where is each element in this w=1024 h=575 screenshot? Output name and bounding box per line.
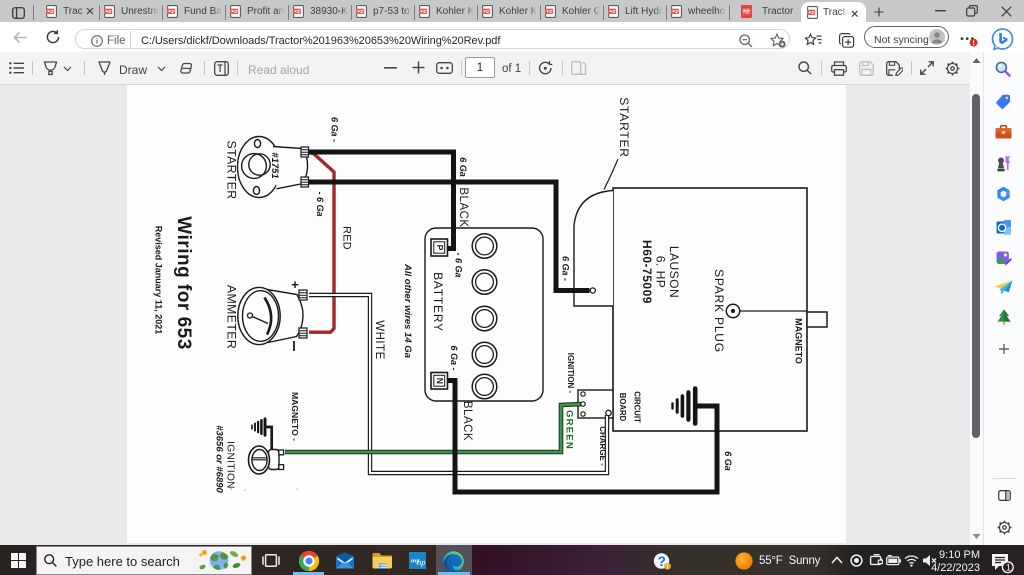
- task view: [262, 553, 280, 568]
- svg-text:All other wires 14 Ga: All other wires 14 Ga: [402, 263, 413, 358]
- collections icon: [839, 33, 855, 48]
- eraser: [179, 62, 195, 75]
- svg-text:P: P: [435, 245, 445, 251]
- refresh: [46, 30, 60, 44]
- starter leader line: [604, 159, 618, 190]
- edge highlight: [436, 545, 472, 575]
- svg-text:MAGNETO: MAGNETO: [794, 318, 804, 364]
- svg-text:BATTERY: BATTERY: [431, 272, 445, 332]
- outlook: [996, 220, 1011, 235]
- get help: [653, 553, 672, 570]
- svg-text:SPARK PLUG: SPARK PLUG: [712, 269, 726, 353]
- start: [11, 553, 26, 568]
- bing button: [991, 28, 1014, 51]
- engine block LAUSON H60-75009: [613, 188, 807, 431]
- svg-text:WHITE: WHITE: [373, 320, 385, 360]
- engine starter hump: [574, 191, 613, 307]
- mail: [335, 552, 355, 569]
- engine starter terminal dot: [590, 288, 595, 293]
- svg-text:6 Ga: 6 Ga: [458, 157, 468, 177]
- black wire: battery N to engine ground: [448, 381, 717, 493]
- battery N terminal: [431, 373, 448, 390]
- games pawn: [996, 155, 1011, 172]
- ammeter terminal minus: [299, 328, 307, 338]
- circuit board label: [618, 391, 642, 423]
- tray: battery: [886, 555, 901, 566]
- ammeter: [238, 287, 303, 344]
- tray: chevron: [831, 556, 843, 564]
- draw pen: [97, 61, 112, 76]
- svg-text:H60-75009: H60-75009: [640, 240, 654, 304]
- battery P terminal: [431, 239, 448, 256]
- fit width: [436, 62, 453, 74]
- myhp: [409, 552, 426, 569]
- save disabled: [859, 61, 874, 76]
- highlighter: [43, 61, 58, 76]
- search box: [36, 546, 252, 575]
- spark plug wire: [740, 310, 807, 312]
- zoom out icon: [739, 34, 753, 48]
- svg-text:6. HP: 6. HP: [654, 256, 668, 289]
- ammeter terminal plus: [299, 290, 307, 300]
- svg-text:6 Ga -: 6 Ga -: [449, 345, 459, 370]
- window controls: [935, 10, 946, 12]
- svg-text:#3656 or #6890: #3656 or #6890: [214, 425, 225, 493]
- svg-text:STARTER: STARTER: [225, 140, 239, 199]
- svg-text:6 Ga -: 6 Ga -: [330, 117, 340, 142]
- svg-text:#1751: #1751: [269, 152, 280, 178]
- svg-text:RED: RED: [341, 226, 353, 250]
- wire gauge labels: [315, 117, 733, 471]
- back (disabled): [13, 31, 28, 44]
- right group: [798, 61, 812, 75]
- svg-text:- 6 Ga: - 6 Ga: [315, 191, 325, 216]
- expand: [920, 61, 934, 75]
- tray: record dot: [850, 554, 863, 567]
- search: [995, 61, 1011, 77]
- notifications: [991, 553, 1015, 574]
- minus / plus: [384, 67, 397, 69]
- chrome: [299, 551, 319, 571]
- starter terminal bottom: [301, 177, 309, 187]
- ignition ground wire: [265, 427, 272, 450]
- clock: [920, 549, 980, 561]
- svg-text:BLACK: BLACK: [457, 187, 469, 227]
- active tab: [801, 2, 866, 22]
- save as: [886, 61, 903, 76]
- svg-text:IGNITION -: IGNITION -: [566, 353, 575, 394]
- ammeter needle: [248, 313, 253, 318]
- starter terminal top: [301, 147, 309, 157]
- text box icon: [214, 61, 229, 76]
- workspace button: [12, 7, 25, 19]
- circuit board terminals: [581, 392, 585, 396]
- starter solenoid #1751: [238, 137, 308, 198]
- m365 ring: [996, 186, 1011, 202]
- tree: [997, 309, 1011, 326]
- gear: [997, 520, 1012, 535]
- designer: [996, 251, 1012, 267]
- engine label: [640, 240, 681, 304]
- svg-text:Wiring for 653: Wiring for 653: [173, 216, 194, 350]
- svg-text:BLACK: BLACK: [461, 401, 473, 441]
- battery cells: [472, 234, 497, 399]
- panel icon: [998, 490, 1011, 501]
- explorer: [372, 552, 392, 569]
- svg-text:hp: hp: [417, 557, 426, 567]
- black wire: starter top to battery P: [308, 152, 454, 249]
- charge terminal: [606, 410, 611, 415]
- black wire: starter bottom to engine starter: [308, 182, 590, 291]
- svg-text:MAGNETO -: MAGNETO -: [290, 392, 300, 441]
- svg-text:CIRCUIT: CIRCUIT: [633, 391, 642, 423]
- svg-text:6 Ga: 6 Ga: [723, 451, 733, 471]
- spark plug: [726, 304, 739, 317]
- divider: [993, 478, 1016, 479]
- scan speckles: [230, 488, 232, 490]
- battery: [425, 228, 543, 401]
- svg-text:6 Ga -: 6 Ga -: [561, 256, 571, 281]
- svg-text:Revised January 11, 2021: Revised January 11, 2021: [154, 226, 164, 335]
- svg-text:- 6 Ga: - 6 Ga: [454, 252, 464, 277]
- ellipsis + badge: [959, 36, 979, 49]
- green wire: ignition to circuit board: [285, 404, 583, 452]
- pdf page: [127, 85, 846, 543]
- sun: [735, 552, 753, 570]
- page box: [465, 57, 495, 78]
- red wire: starter to ammeter: [307, 153, 334, 333]
- tray: mute: [922, 554, 937, 567]
- toolbox: [995, 125, 1012, 139]
- settings gear: [945, 61, 960, 76]
- svg-text:+: +: [291, 277, 299, 292]
- url pill: [75, 29, 790, 49]
- svg-text:GREEN: GREEN: [564, 410, 575, 450]
- print: [831, 61, 847, 76]
- plus: [998, 343, 1010, 355]
- svg-text:IGNITION: IGNITION: [225, 441, 236, 489]
- svg-text:N: N: [435, 378, 445, 384]
- toc icon: [9, 62, 24, 74]
- earth-day doodle: [196, 548, 250, 573]
- ignition switch #3656: [249, 446, 284, 474]
- svg-text:AMMETER: AMMETER: [225, 285, 239, 349]
- svg-text:1: 1: [1006, 563, 1011, 573]
- svg-text:STARTER: STARTER: [617, 97, 631, 158]
- svg-text:BOARD: BOARD: [618, 393, 627, 422]
- shopping tag: [996, 94, 1011, 109]
- magneto tab: [807, 312, 827, 327]
- svg-text:LAUSON: LAUSON: [667, 246, 681, 298]
- white wire: ammeter to charge terminal: [309, 295, 607, 473]
- new tab +: [874, 7, 884, 17]
- not syncing pill: [864, 26, 949, 48]
- ammeter scale arc: [265, 298, 272, 335]
- circuit board: [578, 390, 613, 418]
- engine ground symbol: [673, 389, 696, 424]
- rotate: [538, 61, 553, 75]
- tray: display: [869, 554, 883, 567]
- tray: wifi: [904, 554, 919, 567]
- drop plane: [994, 280, 1013, 295]
- ignition ground symbol: [252, 419, 265, 435]
- page layout (disabled): [571, 61, 587, 75]
- ammeter minus sign: [293, 341, 295, 351]
- add favorite star: [770, 33, 786, 48]
- favorites bar icon: [805, 33, 822, 48]
